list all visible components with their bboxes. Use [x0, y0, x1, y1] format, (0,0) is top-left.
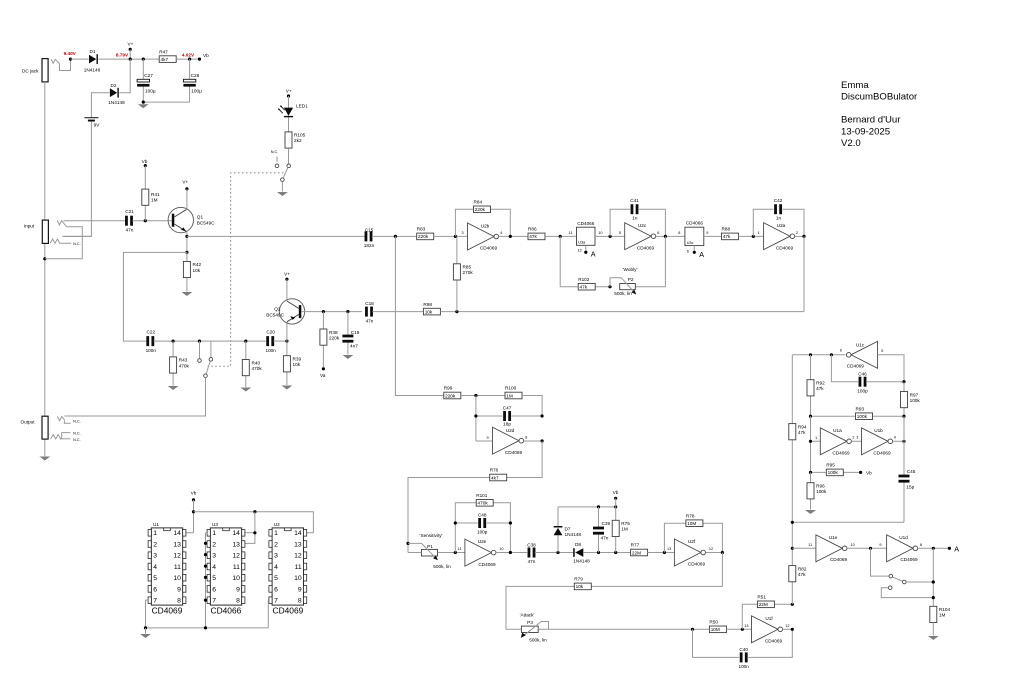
svg-text:P3: P3 — [527, 620, 533, 625]
wire R88 to U2a — [739, 235, 764, 237]
svg-text:CD4066: CD4066 — [686, 221, 704, 226]
svg-text:Input: Input — [24, 223, 35, 228]
svg-text:R102: R102 — [578, 277, 590, 282]
capacitor C38 47n — [527, 543, 536, 565]
svg-text:1n: 1n — [776, 215, 782, 220]
svg-text:4: 4 — [894, 436, 896, 440]
svg-text:R84: R84 — [474, 200, 483, 205]
svg-text:5: 5 — [619, 231, 621, 235]
node V+ Q2 — [284, 272, 290, 281]
junction U3 supply drop — [253, 510, 256, 513]
svg-text:10: 10 — [598, 231, 602, 235]
capacitor C42 1n — [774, 198, 783, 220]
junction R85 bottom — [455, 310, 458, 313]
svg-text:R82: R82 — [798, 566, 807, 571]
svg-text:10k: 10k — [425, 309, 433, 314]
svg-text:N.C.: N.C. — [73, 420, 81, 424]
svg-text:R47: R47 — [159, 49, 168, 54]
wire R93 row — [811, 415, 905, 417]
junction R41 base — [144, 219, 147, 222]
svg-text:U1c: U1c — [856, 343, 865, 348]
svg-text:11: 11 — [569, 231, 573, 235]
resistor R78 10M — [686, 513, 703, 526]
svg-text:220k: 220k — [475, 207, 486, 212]
node A output — [948, 544, 959, 553]
junction ground rail — [142, 101, 145, 104]
node V+ LED — [286, 88, 292, 97]
svg-text:2k2: 2k2 — [294, 138, 302, 143]
resistor R98 10k — [423, 302, 440, 315]
junction C39 top — [597, 505, 600, 508]
node Vb D7 — [613, 490, 619, 507]
svg-text:47k: 47k — [798, 430, 806, 435]
svg-text:R41: R41 — [151, 192, 160, 197]
svg-text:R101: R101 — [476, 493, 488, 498]
svg-text:11: 11 — [458, 547, 462, 551]
wire R101 loop — [455, 503, 510, 553]
svg-text:CD4069: CD4069 — [478, 562, 496, 567]
svg-text:CD4069: CD4069 — [900, 557, 918, 562]
analog switch U3c CD4066 — [678, 221, 708, 259]
wire left sleeve bus — [44, 82, 46, 456]
svg-text:10k: 10k — [293, 362, 301, 367]
svg-text:R79: R79 — [574, 577, 583, 582]
junction U2f out — [721, 551, 724, 554]
junction U3 pin7 — [204, 599, 207, 602]
junction sleeve bus — [43, 257, 46, 260]
junction S2 lower — [932, 596, 935, 599]
svg-text:270k: 270k — [463, 270, 474, 275]
resistor R102 47k — [578, 277, 595, 290]
resistor R77 22M — [631, 543, 648, 556]
node V+ Q1 — [182, 180, 188, 191]
svg-text:U2c: U2c — [638, 223, 647, 228]
node Vb — [198, 53, 209, 61]
wire U2a feedback drop — [803, 236, 805, 311]
resistor R97 100k — [901, 382, 921, 417]
capacitor C22 100n — [146, 329, 157, 353]
resistor R105 2k2 — [285, 132, 306, 148]
resistor R39 10k — [283, 341, 301, 385]
svg-text:V+: V+ — [286, 88, 292, 93]
wire P3 to R50 — [538, 628, 709, 630]
svg-text:R51: R51 — [757, 595, 766, 600]
terminal N.C. bypass — [198, 341, 202, 362]
inverter U1d CD4069 — [879, 535, 922, 562]
svg-text:10: 10 — [499, 547, 503, 551]
svg-text:C41: C41 — [630, 198, 639, 203]
resistor R93 100k — [856, 406, 873, 419]
capacitor C15 182n — [364, 228, 375, 248]
junction U3 pin3 — [204, 553, 207, 556]
svg-text:4: 4 — [500, 231, 502, 235]
wire mid rail U1a — [811, 416, 821, 472]
svg-text:15p: 15p — [906, 485, 914, 490]
svg-text:R93: R93 — [856, 406, 865, 411]
svg-text:1N4148: 1N4148 — [108, 100, 125, 105]
svg-text:10: 10 — [851, 543, 855, 547]
svg-text:'Wobly': 'Wobly' — [623, 267, 638, 272]
ground R40 — [240, 388, 251, 392]
svg-text:U2b: U2b — [481, 223, 490, 228]
junction R93 left — [809, 415, 812, 418]
potentiometer P3 500k lin — [521, 620, 549, 642]
junction R75 bottom — [614, 551, 617, 554]
svg-text:12: 12 — [709, 547, 713, 551]
svg-text:P1: P1 — [427, 544, 433, 549]
svg-text:47n: 47n — [601, 536, 609, 541]
wire R98 to feedback node — [440, 311, 803, 313]
svg-text:C21: C21 — [125, 209, 134, 214]
svg-text:100p: 100p — [477, 529, 488, 534]
junction R99 drop — [394, 235, 397, 238]
svg-text:D2: D2 — [111, 83, 117, 88]
wire C20 to emitter junction — [274, 340, 287, 342]
junction U2a out — [802, 235, 805, 238]
wire Q2 base row — [301, 311, 362, 313]
svg-text:N.C.: N.C. — [73, 432, 81, 436]
wire U3a to U2c — [595, 235, 625, 237]
svg-text:R40: R40 — [252, 360, 261, 365]
wire DC jack switch contact — [59, 59, 71, 70]
junction U1a input — [809, 440, 812, 443]
wire Vb top rail — [194, 512, 314, 533]
svg-text:LED1: LED1 — [296, 104, 308, 109]
resistor R94 47k — [789, 424, 807, 440]
ground power — [138, 104, 149, 108]
capacitor C45 15p — [899, 469, 916, 490]
junction Q2 emitter R39 — [285, 340, 288, 343]
junction R93 right — [902, 415, 905, 418]
resistor R101 470k — [476, 493, 493, 506]
wire U1b out — [893, 440, 904, 442]
junction U3 pin2 — [204, 542, 207, 545]
node Vb ICs — [191, 491, 197, 502]
svg-text:182n: 182n — [364, 243, 375, 248]
wire Q2 emitter — [286, 322, 288, 341]
inverter U1a CD4069 — [815, 428, 854, 456]
svg-text:R94: R94 — [798, 424, 807, 429]
wire switch to output tip — [64, 378, 205, 417]
svg-text:6: 6 — [840, 349, 842, 353]
svg-text:1: 1 — [815, 436, 817, 440]
jack output J3 — [20, 416, 80, 442]
junction U1b out — [902, 440, 905, 443]
wire C40 loop — [693, 629, 793, 657]
svg-text:500k, lin: 500k, lin — [614, 291, 632, 296]
wire Q1 out to C15 — [187, 235, 365, 237]
svg-text:13: 13 — [744, 624, 748, 628]
wire Q1 collector — [186, 189, 188, 210]
svg-text:N.C.: N.C. — [73, 242, 81, 246]
wire U1e out — [847, 547, 887, 549]
wire U1 pin7 to ground rail — [146, 600, 149, 628]
svg-text:8: 8 — [678, 231, 680, 235]
wire U2e out — [496, 552, 527, 554]
svg-text:47k: 47k — [798, 572, 806, 577]
svg-text:CD4066: CD4066 — [577, 221, 595, 226]
wire R77 to U2f — [648, 552, 675, 554]
resistor R43 470k — [170, 341, 190, 385]
junction U1d input — [869, 547, 872, 550]
svg-text:R43: R43 — [179, 358, 188, 363]
junction U2e out — [509, 551, 512, 554]
junction C40 left — [691, 628, 694, 631]
wire IC ground rail — [146, 627, 269, 629]
svg-text:C22: C22 — [146, 329, 155, 334]
svg-text:13: 13 — [667, 547, 671, 551]
capacitor C39 47n — [593, 507, 610, 553]
title block — [841, 80, 918, 149]
resistor R76 4k7 — [490, 468, 507, 481]
svg-text:CD4069: CD4069 — [765, 639, 783, 644]
DC jack J1 — [22, 59, 59, 82]
junction Vb rail — [192, 510, 195, 513]
node V+ — [127, 42, 133, 61]
wire ground stub — [145, 628, 147, 634]
svg-text:R76: R76 — [490, 468, 499, 473]
svg-text:R100: R100 — [505, 386, 517, 391]
svg-text:100µ: 100µ — [191, 89, 202, 94]
junction Q1 out — [185, 235, 188, 238]
capacitor C20 100n — [265, 329, 276, 353]
svg-text:U3a: U3a — [578, 241, 586, 245]
svg-text:U2f: U2f — [688, 539, 696, 544]
svg-text:220k: 220k — [445, 393, 456, 398]
wire Q2 collector — [286, 279, 288, 301]
resistor R79 10k — [574, 577, 591, 590]
wire input tip shunt to sleeve — [45, 227, 83, 259]
svg-text:C38: C38 — [527, 543, 536, 548]
resistor R100 1M — [505, 386, 522, 399]
svg-text:Vb: Vb — [613, 490, 619, 495]
wire R104 to ground — [932, 623, 934, 636]
svg-text:12: 12 — [578, 249, 582, 253]
junction R51 right — [791, 603, 794, 606]
wire R78 loop — [664, 523, 722, 552]
wire Q1 emitter to C22 — [123, 252, 186, 341]
svg-text:R50: R50 — [709, 620, 718, 625]
wire oscillator top rail — [792, 354, 845, 356]
svg-text:470k: 470k — [478, 501, 489, 506]
junction C47 left top — [474, 394, 477, 397]
capacitor C40 100n — [738, 647, 749, 669]
svg-text:CD4069: CD4069 — [873, 450, 891, 455]
svg-text:C18: C18 — [365, 301, 374, 306]
inverter U1f CD4069 — [744, 616, 789, 644]
svg-text:U1d: U1d — [899, 535, 908, 540]
junction U2d out — [541, 439, 544, 442]
resistor R50 10M — [709, 620, 726, 633]
resistor R47 4k7 — [159, 49, 176, 62]
switch S1a bypass — [204, 341, 213, 377]
wire C21 to Q1 base — [132, 220, 172, 222]
svg-text:47k: 47k — [580, 285, 588, 290]
junction C48 dots — [454, 521, 512, 524]
svg-text:CD4066: CD4066 — [211, 606, 242, 616]
junction R43 — [172, 340, 175, 343]
junction U2f input — [663, 551, 666, 554]
svg-text:U2a: U2a — [777, 223, 786, 228]
wire P2 loop — [560, 236, 665, 286]
svg-text:10M: 10M — [711, 627, 720, 632]
svg-text:9: 9 — [706, 231, 708, 235]
svg-text:9.40V: 9.40V — [64, 51, 77, 56]
svg-text:100n: 100n — [738, 664, 749, 669]
svg-text:100k: 100k — [828, 470, 839, 475]
wire oscillator bottom rail — [792, 521, 904, 523]
svg-text:1: 1 — [758, 231, 760, 235]
junction bottom left — [791, 521, 794, 524]
svg-text:220k: 220k — [329, 335, 340, 340]
svg-text:BC549C: BC549C — [197, 221, 215, 226]
ground output jack — [39, 457, 50, 461]
diode D1 1N4148 — [84, 49, 101, 73]
junction C41 left — [609, 235, 612, 238]
junction R38 — [322, 310, 325, 313]
wire C48 row — [455, 523, 510, 553]
svg-text:100k: 100k — [857, 414, 868, 419]
svg-text:C19: C19 — [351, 330, 360, 335]
svg-text:Vb: Vb — [142, 159, 148, 164]
node Va — [320, 367, 326, 378]
junction U2b out — [509, 235, 512, 238]
wire U1a to U1b — [851, 440, 861, 442]
svg-text:1n: 1n — [632, 215, 638, 220]
resistor R95 100k — [826, 463, 843, 476]
svg-text:CD4069: CD4069 — [688, 562, 706, 567]
switch linkage dotted — [208, 173, 284, 366]
svg-text:100k: 100k — [816, 489, 827, 494]
svg-text:R98: R98 — [423, 302, 432, 307]
svg-text:6: 6 — [657, 231, 659, 235]
ground R42 — [182, 292, 193, 296]
svg-text:Vb: Vb — [866, 471, 872, 476]
wire R84 feedback loop — [455, 209, 510, 236]
junction D7 — [556, 551, 559, 554]
svg-text:CD4069: CD4069 — [776, 246, 794, 251]
wire U2d out — [524, 440, 543, 442]
wire switch to ground — [281, 182, 283, 192]
resistor R85 270k — [453, 236, 473, 311]
inverter U2e CD4069 — [458, 539, 504, 567]
wire U2c out — [656, 235, 685, 237]
wire Vb to U1 pin14 — [186, 500, 194, 533]
svg-text:1N4148: 1N4148 — [565, 532, 582, 537]
inverter U1b CD4069 — [856, 428, 896, 456]
potentiometer P1 500k lin — [408, 543, 465, 569]
svg-text:R105: R105 — [294, 133, 306, 138]
wire R86 to U3a — [545, 235, 577, 237]
svg-text:1M: 1M — [151, 198, 158, 203]
wire U2a out — [795, 235, 804, 237]
svg-text:R96: R96 — [816, 484, 825, 489]
wire R83 to U2b — [434, 235, 468, 237]
svg-text:Q1: Q1 — [197, 215, 204, 220]
svg-text:100k: 100k — [910, 398, 921, 403]
svg-text:CD4069: CD4069 — [847, 364, 865, 369]
svg-text:Emma: Emma — [841, 80, 869, 91]
svg-text:R104: R104 — [939, 607, 951, 612]
resistor R84 220k — [474, 200, 491, 213]
svg-text:C27: C27 — [144, 73, 153, 78]
capacitor C46 100p — [857, 372, 868, 394]
wire right rail C45 — [903, 416, 905, 522]
svg-text:500k, lin: 500k, lin — [433, 564, 451, 569]
svg-text:D8: D8 — [575, 542, 581, 547]
junction ground rail left — [144, 626, 147, 629]
capacitor C41 1n — [630, 198, 639, 220]
svg-text:A: A — [954, 544, 959, 553]
wire R47 to Vb — [176, 58, 199, 60]
junction C19 — [346, 310, 349, 313]
resistor R82 47k — [789, 566, 807, 582]
svg-text:2: 2 — [796, 231, 798, 235]
svg-text:R42: R42 — [193, 262, 202, 267]
svg-text:DiscumBOBulator: DiscumBOBulator — [841, 92, 918, 103]
svg-text:R39: R39 — [293, 357, 302, 362]
svg-text:47k: 47k — [723, 234, 731, 239]
junction C46 right — [902, 380, 905, 383]
junction P2 wiper — [608, 285, 611, 288]
svg-text:470k: 470k — [179, 363, 190, 368]
svg-text:C20: C20 — [266, 329, 275, 334]
junction U1c out — [830, 353, 833, 356]
wire battery to D2 to V+ — [91, 59, 130, 118]
svg-text:R78: R78 — [686, 513, 695, 518]
inverter U2c CD4069 — [619, 223, 660, 251]
wire U2f to R79 — [506, 553, 722, 630]
ground R39 — [282, 386, 293, 390]
resistor R83 220k — [417, 227, 434, 240]
wire input tip to C21 — [64, 220, 126, 222]
capacitor C28 100u — [183, 59, 202, 102]
junction P2 left drop — [559, 235, 562, 238]
resistor R42 10k — [183, 252, 201, 291]
svg-text:R95: R95 — [826, 463, 835, 468]
svg-text:U1a: U1a — [833, 428, 842, 433]
svg-text:CD4069: CD4069 — [273, 606, 304, 616]
svg-text:P2: P2 — [628, 277, 634, 282]
svg-text:CD4069: CD4069 — [830, 557, 848, 562]
junction U3 pin4 — [204, 565, 207, 568]
wire U1d out — [918, 547, 950, 549]
wire oscillator left rail — [791, 355, 793, 605]
svg-text:R88: R88 — [722, 227, 731, 232]
junction U1e input — [791, 547, 794, 550]
svg-text:Vb: Vb — [203, 53, 209, 58]
node Vb R41 — [142, 159, 148, 167]
svg-text:47k: 47k — [816, 386, 824, 391]
svg-text:BC549C: BC549C — [266, 312, 284, 317]
switch S1b LED — [271, 150, 291, 182]
inverter U2b CD4069 — [462, 223, 503, 251]
wire y341 switch to C20 — [211, 340, 266, 342]
svg-text:R86: R86 — [528, 227, 537, 232]
svg-text:C48: C48 — [478, 513, 487, 518]
svg-text:U2e: U2e — [478, 539, 487, 544]
junction R75 top — [614, 505, 617, 508]
capacitor C47 18p — [503, 406, 512, 427]
svg-text:A: A — [591, 250, 596, 259]
svg-text:C42: C42 — [774, 198, 783, 203]
svg-text:1M: 1M — [621, 527, 628, 532]
svg-text:D1: D1 — [90, 49, 96, 54]
junction R42 top — [185, 251, 188, 254]
svg-text:V+: V+ — [127, 42, 133, 47]
jack input J2 — [24, 220, 81, 246]
svg-text:U2: U2 — [274, 522, 280, 527]
